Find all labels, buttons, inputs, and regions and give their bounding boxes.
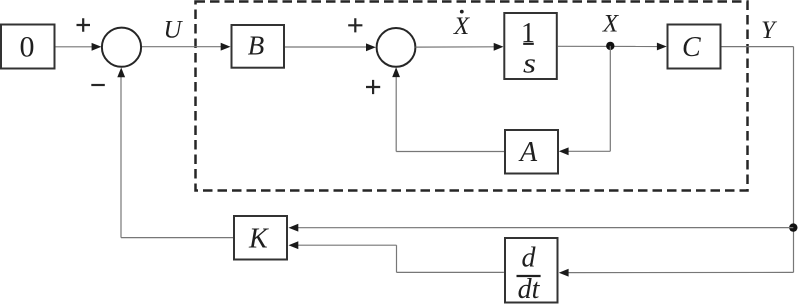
node dot on output feedback bbox=[789, 223, 797, 231]
plus sign at S2 lower-left bbox=[366, 80, 380, 94]
block 0 (reference input) bbox=[1, 25, 55, 69]
svg-text:C: C bbox=[682, 32, 701, 63]
differentiator block d/dt bbox=[505, 238, 558, 305]
integrator block 1/s bbox=[504, 13, 557, 80]
block B bbox=[232, 25, 285, 68]
svg-text:s: s bbox=[523, 49, 536, 80]
svg-text:A: A bbox=[518, 137, 538, 168]
wire A to S2 vertical bbox=[395, 76, 397, 152]
svg-text:K: K bbox=[248, 224, 269, 255]
label X-dot bbox=[453, 10, 471, 40]
arrowhead into C bbox=[657, 43, 667, 51]
arrowhead into S1 bottom bbox=[117, 68, 125, 78]
arrowhead into S2 left bbox=[366, 43, 376, 51]
jog vertical wire bbox=[396, 245, 398, 272]
arrowhead into A bbox=[559, 147, 569, 155]
block K bbox=[234, 216, 287, 260]
block C bbox=[668, 25, 721, 69]
summing junction S1 bbox=[102, 28, 141, 67]
arrowhead into S2 bottom bbox=[392, 67, 400, 77]
wire jog to K lower input bbox=[298, 244, 397, 246]
svg-text:dt: dt bbox=[518, 274, 541, 305]
feedback wire X down to A level bbox=[609, 46, 611, 151]
arrowhead into K upper bbox=[289, 224, 299, 232]
block A bbox=[505, 130, 558, 174]
svg-text:0: 0 bbox=[20, 30, 35, 63]
svg-text:U: U bbox=[163, 17, 183, 44]
summing junction S2 bbox=[377, 28, 416, 67]
plus sign at S2 upper-left bbox=[348, 18, 362, 32]
svg-text:B: B bbox=[248, 31, 265, 61]
arrowhead into S1 left bbox=[92, 43, 102, 51]
arrowhead into differentiator bbox=[559, 269, 569, 277]
wire differentiator to jog bbox=[397, 271, 504, 273]
wire C to output corner bbox=[722, 46, 794, 48]
plus sign at S1 upper-left bbox=[77, 18, 91, 32]
svg-text:Y: Y bbox=[761, 17, 778, 44]
wire K to S1 vertical bbox=[120, 76, 122, 238]
arrowhead into integrator bbox=[494, 43, 504, 51]
svg-text:X: X bbox=[602, 11, 620, 38]
wire S2 to integrator bbox=[415, 46, 495, 48]
wire into A right side bbox=[568, 150, 610, 152]
wire K to S1 horizontal bbox=[121, 237, 233, 239]
svg-text:X: X bbox=[453, 13, 471, 40]
wire output dot to K upper input bbox=[298, 227, 793, 229]
output feedback vertical wire bbox=[793, 47, 795, 273]
minus sign at S1 lower input bbox=[91, 84, 105, 86]
wire S1 to B bbox=[142, 46, 222, 48]
wire integrator to C bbox=[558, 45, 658, 47]
svg-text:d: d bbox=[522, 243, 537, 274]
node dot at X bbox=[606, 42, 614, 50]
arrowhead into K lower bbox=[289, 241, 299, 249]
wire B to S2 bbox=[285, 46, 367, 48]
wire 0 to S1 bbox=[56, 46, 94, 48]
arrowhead into B bbox=[221, 43, 231, 51]
wire output bottom to differentiator bbox=[568, 271, 794, 273]
wire A to S2 horizontal bbox=[396, 151, 504, 153]
dashed system boundary box bbox=[196, 2, 748, 191]
